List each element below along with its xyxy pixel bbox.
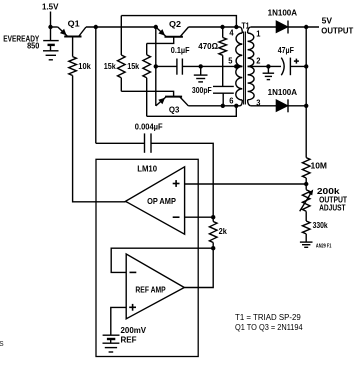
capacitor C4 0.004uF xyxy=(145,133,152,152)
op-amp U1b REF AMP xyxy=(126,254,184,319)
ground (oscillator mid rail) xyxy=(194,66,208,82)
svg-text:5: 5 xyxy=(228,57,233,66)
wire Q1 collector node down to 0.004uF xyxy=(95,27,97,143)
resistor R8 2k xyxy=(209,217,217,248)
transformer T1 secondary winding (pins 1-2-3) xyxy=(248,27,255,106)
node mid rail left xyxy=(154,64,158,68)
svg-text:REF: REF xyxy=(121,335,137,344)
op-amp U1a OP AMP xyxy=(126,167,185,234)
battery B1 EVEREADY 850 xyxy=(43,41,59,51)
transistor Q3 (2N1194) xyxy=(156,97,189,106)
node 2k bottom junction xyxy=(211,246,215,250)
node output rail at 47uF xyxy=(304,64,308,68)
wire 10M to divider node xyxy=(305,178,307,190)
svg-text:AN29 F1: AN29 F1 xyxy=(316,243,332,249)
ground (secondary center tap) xyxy=(263,66,275,79)
plus sign op-amp non-inverting input xyxy=(173,180,180,187)
svg-text:470Ω: 470Ω xyxy=(198,41,218,51)
capacitor C2 300pF xyxy=(213,86,234,105)
svg-text:Q1 TO Q3 = 2N1194: Q1 TO Q3 = 2N1194 xyxy=(235,323,303,332)
svg-text:15k: 15k xyxy=(127,61,139,71)
wire 15k right bottom to T1 tap 6 xyxy=(147,106,237,117)
wire T1 pin 1 to diode D1 xyxy=(251,26,277,28)
node 300pF bottom junction xyxy=(221,104,225,108)
diode D1 1N100A xyxy=(276,21,319,34)
node T1 tap 5 junction xyxy=(234,64,238,68)
svg-text:ADJUST: ADJUST xyxy=(319,203,346,212)
label EVEREADY 850 xyxy=(3,33,39,50)
resistor R7 330k xyxy=(302,221,310,234)
node secondary center tap ground junction xyxy=(266,64,270,68)
svg-text:5V: 5V xyxy=(322,17,333,26)
svg-text:Q3: Q3 xyxy=(169,104,180,114)
IC U1 LM10 boundary box xyxy=(96,159,198,356)
wire ref-amp + input to 200mV reference xyxy=(111,307,126,335)
resistor R1 10k xyxy=(69,57,77,76)
wire top rail: Q1 collector to Q2 emitter xyxy=(86,26,156,28)
label 200mV REF xyxy=(121,326,147,344)
wire feedback top line to T1 tap 4 xyxy=(121,16,236,27)
plus sign 47uF polarity xyxy=(294,59,299,64)
svg-text:6: 6 xyxy=(229,97,234,106)
node T1 tap 4 junction xyxy=(234,25,238,29)
plus sign ref-amp non-inverting input xyxy=(129,304,136,311)
wire T1 pin 2 to 47uF / ground xyxy=(248,65,281,67)
node battery / Q1 emitter junction xyxy=(48,25,52,29)
diode D2 1N100A xyxy=(276,99,306,112)
svg-text:0.1µF: 0.1µF xyxy=(171,45,190,55)
svg-text:2k: 2k xyxy=(219,227,228,236)
svg-text:T1: T1 xyxy=(242,20,250,30)
svg-text:1N100A: 1N100A xyxy=(268,88,298,97)
wire Q3 collector to T1 tap 6 xyxy=(188,105,240,107)
node T1 tap 6 junction xyxy=(234,104,238,108)
wire 330k to ground xyxy=(305,234,307,242)
node oscillator emitter feed xyxy=(154,25,158,29)
svg-text:Q1: Q1 xyxy=(68,18,80,28)
svg-text:OUTPUT: OUTPUT xyxy=(321,27,353,36)
battery reference 200mV xyxy=(103,335,120,343)
node output rail top (5V) xyxy=(304,25,308,29)
wire feedback divider to op-amp + input xyxy=(185,183,307,185)
svg-text:200k: 200k xyxy=(317,186,340,196)
ground (battery) xyxy=(43,51,59,60)
wire battery positive to node xyxy=(50,12,52,41)
wire node down to mid rail and Q3 emitter xyxy=(155,27,157,106)
potentiometer R6 200k OUTPUT ADJUST xyxy=(300,189,314,221)
svg-text:15k: 15k xyxy=(104,61,116,71)
wire T1 pin 3 to diode D2 xyxy=(251,105,277,107)
svg-text:REF AMP: REF AMP xyxy=(135,286,166,295)
node output rail at D2 xyxy=(304,104,308,108)
transistor Q1 (2N1194) xyxy=(58,27,86,57)
svg-text:0.004µF: 0.004µF xyxy=(135,122,163,132)
wire ref-amp output to 2k bottom xyxy=(184,248,213,287)
label 5V OUTPUT xyxy=(321,17,353,36)
svg-text:Q2: Q2 xyxy=(169,19,181,29)
svg-text:1: 1 xyxy=(256,29,261,38)
capacitor C3 47uF polarized xyxy=(281,58,306,76)
wire top rail: battery node to Q1 emitter xyxy=(51,26,58,28)
wire 10k bottom to op-amp output xyxy=(73,76,126,202)
svg-text:1.5V: 1.5V xyxy=(42,1,59,11)
node Q1 collector junction xyxy=(94,25,98,29)
transformer T1 primary winding (taps 4-5-6) xyxy=(236,27,243,106)
svg-text:300pF: 300pF xyxy=(192,85,212,95)
ground (output divider) xyxy=(300,242,313,247)
resistor R4 470 ohm xyxy=(219,27,227,86)
svg-text:330k: 330k xyxy=(313,221,328,230)
svg-text:OP AMP: OP AMP xyxy=(147,197,176,206)
svg-text:10k: 10k xyxy=(78,61,91,71)
wire 0.004uF net: Q1 collector to 2k top xyxy=(96,143,213,217)
node 470 ohm top junction xyxy=(220,25,224,29)
wire Q2 collector to T1 tap 4 xyxy=(189,26,241,28)
transistor Q2 (2N1194) xyxy=(147,27,189,43)
resistor R2 15k (left) xyxy=(118,16,126,92)
svg-text:LM10: LM10 xyxy=(137,163,157,173)
wire Q3 base cross-coupling xyxy=(121,91,173,96)
node output divider / feedback xyxy=(304,182,308,186)
svg-text:850: 850 xyxy=(27,40,39,50)
node mid rail ground junction xyxy=(199,64,203,68)
transformer T1 core xyxy=(244,32,246,105)
svg-text:s: s xyxy=(0,338,4,348)
resistor R3 15k (right) xyxy=(143,43,151,116)
capacitor C1 0.1uF with mid rail wire xyxy=(156,59,243,75)
svg-text:200mV: 200mV xyxy=(121,326,147,335)
resistor R5 10M xyxy=(302,158,310,178)
minus sign ref-amp inverting input xyxy=(130,271,137,273)
wire op-amp inverting input to 2k xyxy=(185,216,214,218)
svg-text:1N100A: 1N100A xyxy=(268,8,298,17)
svg-text:10M: 10M xyxy=(311,161,328,171)
wire output rail down right side xyxy=(305,27,307,158)
svg-text:47µF: 47µF xyxy=(278,45,294,55)
wire ref-amp feedback: 2k bottom to inverting input xyxy=(111,248,213,272)
svg-text:2: 2 xyxy=(256,57,261,66)
ground (200mV reference) xyxy=(103,343,120,352)
svg-text:T1 = TRIAD SP-29: T1 = TRIAD SP-29 xyxy=(235,313,301,322)
svg-text:4: 4 xyxy=(229,28,234,37)
minus sign op-amp inverting input xyxy=(173,216,180,218)
node 2k top junction xyxy=(211,215,215,219)
